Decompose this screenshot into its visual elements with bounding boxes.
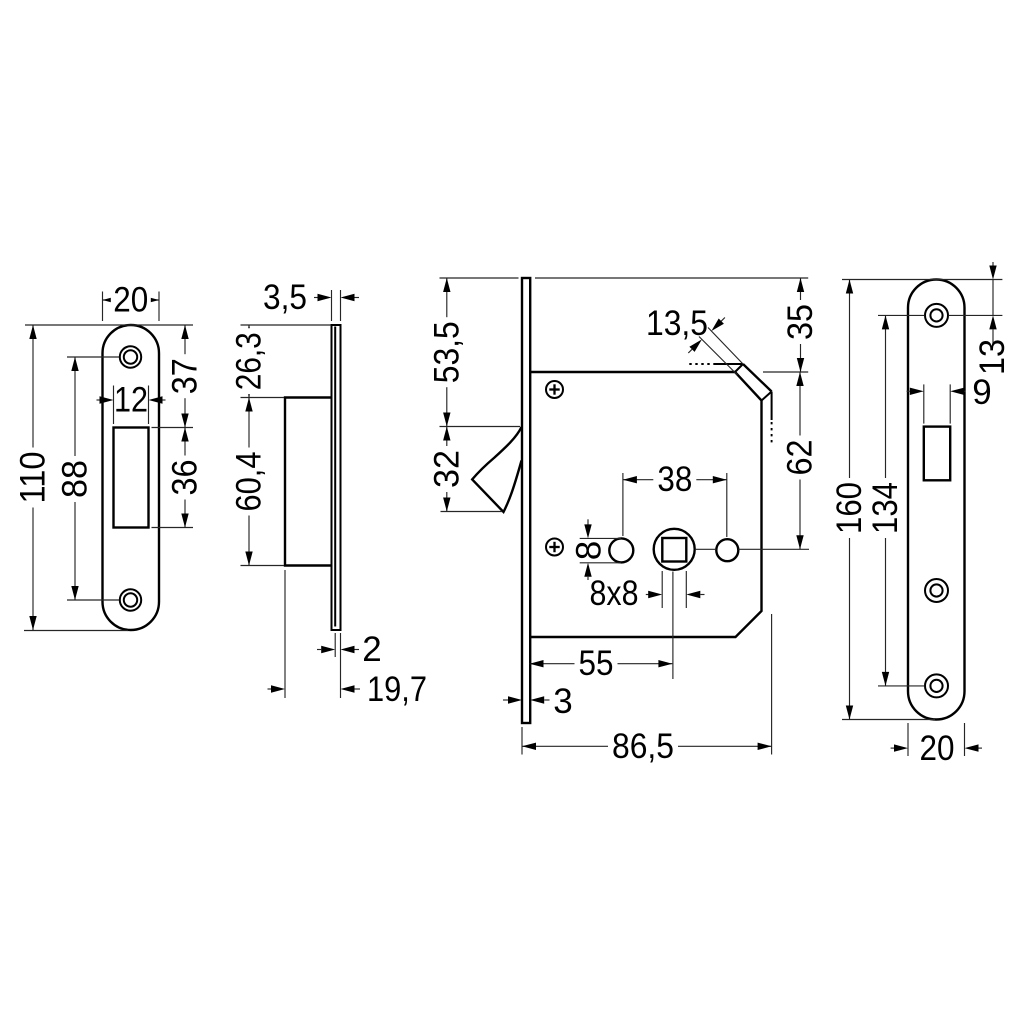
svg-text:13,5: 13,5 <box>646 304 708 343</box>
dimension 8 hole diameter <box>570 519 609 580</box>
extension line faceplate top y278 <box>440 277 809 279</box>
lock faceplate side strip <box>522 278 530 723</box>
svg-text:8: 8 <box>570 541 609 560</box>
extension lines dim 8x8 <box>662 571 686 608</box>
dimension 55 backset <box>530 644 673 683</box>
strike plate side view outline <box>332 325 341 630</box>
extension lines dim 20 <box>103 292 160 322</box>
extension lines dim 12 <box>114 386 149 425</box>
svg-text:38: 38 <box>657 460 692 499</box>
svg-text:36: 36 <box>166 460 205 496</box>
extension line plate top y325 <box>25 324 193 326</box>
svg-text:110: 110 <box>14 452 53 504</box>
svg-text:9: 9 <box>972 373 991 412</box>
dimension 3 faceplate thickness <box>503 682 573 721</box>
extension line box bottom y565.5 <box>241 565 285 567</box>
extension line faceplate bottom left <box>521 727 523 755</box>
svg-text:86,5: 86,5 <box>612 727 674 766</box>
dimension 86,5 total depth <box>522 727 772 766</box>
svg-text:53,5: 53,5 <box>427 321 466 383</box>
dimension 160 faceplate height <box>830 280 869 720</box>
latch bolt bevel bottom closing edge <box>762 392 772 401</box>
strike plate latch cutout <box>114 428 149 528</box>
strike plate side inner line <box>334 327 336 627</box>
dimension 20 plate width <box>103 281 160 320</box>
dimension 53,5 <box>427 278 466 427</box>
extension line faceplate bottom y719.5 <box>842 719 935 721</box>
svg-text:134: 134 <box>866 482 905 534</box>
extension line bottom hole center <box>878 685 925 687</box>
extension line body right for 86,5 <box>771 614 773 755</box>
spindle hub circle <box>654 529 695 570</box>
svg-text:88: 88 <box>56 460 95 498</box>
extension line cutout top right <box>152 427 194 429</box>
lock pocket box side view <box>285 398 332 566</box>
hook bolt protruding <box>472 427 521 512</box>
extension lines dim 2 <box>335 633 340 698</box>
dimension 35 <box>781 278 820 372</box>
extension line spindle center vertical <box>672 572 674 680</box>
faceplate front view outline <box>908 280 965 720</box>
strike plate screw hole top <box>120 346 141 367</box>
latch top line dotted part <box>689 363 714 365</box>
extension line plate bottom y630 <box>24 630 128 632</box>
faceplate screw hole bottom <box>925 674 948 697</box>
dimension 62 <box>781 372 820 549</box>
dimension 60,4 box height <box>230 398 269 566</box>
latch bolt tip vertical hidden dotted <box>771 422 773 446</box>
extension lines dim 3,5 <box>332 290 341 321</box>
svg-text:37: 37 <box>166 358 205 394</box>
dimension 13,5 arrows <box>688 318 725 354</box>
faceplate screw hole top <box>925 304 948 327</box>
extension line faceplate top y279.5 <box>842 279 1002 281</box>
dimension 19,7 box depth <box>268 670 428 709</box>
extension line body top right y372 <box>763 371 808 373</box>
svg-text:62: 62 <box>781 440 820 476</box>
dimension 88 hole spacing <box>56 357 95 600</box>
svg-text:60,4: 60,4 <box>230 452 269 512</box>
extension lines dim 9 <box>924 384 950 423</box>
extension line hook top y426.5 <box>440 426 521 428</box>
dimension 2 plate thickness <box>317 630 382 669</box>
extension line cutout bottom right <box>152 527 194 529</box>
svg-text:13: 13 <box>973 339 1012 375</box>
extension line spindle centerline right <box>696 548 809 550</box>
case screw top <box>546 381 563 398</box>
extension line box top y397.5 <box>241 397 285 399</box>
svg-text:12: 12 <box>114 381 148 420</box>
svg-text:20: 20 <box>113 281 148 320</box>
dimension 38 hole spacing <box>623 460 727 499</box>
extension lines dim 8 <box>580 538 621 562</box>
svg-text:55: 55 <box>579 644 614 683</box>
dimension 36 cutout height <box>166 428 205 528</box>
latch bolt bevel top corner step <box>735 364 743 372</box>
latch bolt tip vertical solid <box>771 392 773 421</box>
latch bolt bevel outer edge <box>743 364 772 392</box>
extension line bottom hole center <box>67 599 119 601</box>
extension lines dim 38 <box>623 473 727 537</box>
extension line side plate top y325 <box>241 324 332 326</box>
dimension 110 plate height <box>14 325 53 630</box>
dimension 13,5 leader lines <box>699 328 743 376</box>
case screw bottom <box>546 539 563 556</box>
dimension 3,5 total thickness <box>263 278 359 317</box>
svg-text:160: 160 <box>830 482 869 534</box>
dimension 20 faceplate width <box>891 729 982 768</box>
dimension 9 cutout width <box>907 373 992 412</box>
faceplate screw hole middle <box>925 579 948 602</box>
svg-text:8x8: 8x8 <box>590 574 639 613</box>
dimension 37 top to cutout <box>166 325 205 428</box>
faceplate latch cutout <box>924 427 950 481</box>
dimension 134 hole spacing <box>866 315 905 686</box>
dimension 8x8 spindle <box>590 574 705 613</box>
svg-text:3,5: 3,5 <box>263 278 307 317</box>
extension line hook bottom y511.5 <box>441 511 503 513</box>
svg-text:32: 32 <box>427 450 466 488</box>
spindle square 8x8 <box>662 538 686 562</box>
extension lines dim 20 bottom <box>908 723 965 756</box>
dimension 13 top to hole <box>973 262 1012 375</box>
svg-text:2: 2 <box>362 630 381 669</box>
left fixing hole <box>609 538 633 562</box>
strike plate front view outline <box>103 325 160 630</box>
lock body outline <box>530 372 761 637</box>
latch top line solid part <box>714 363 743 365</box>
extension line top hole center <box>67 356 119 358</box>
svg-text:19,7: 19,7 <box>367 670 427 709</box>
extension line top hole center <box>878 314 1002 316</box>
svg-text:26,3: 26,3 <box>230 332 269 390</box>
dimension 32 <box>427 427 466 512</box>
svg-text:20: 20 <box>920 729 955 768</box>
extension line box left bottom <box>284 570 286 698</box>
svg-text:35: 35 <box>781 304 820 340</box>
right fixing hole <box>716 539 738 561</box>
dimension 12 cutout width <box>97 381 166 420</box>
svg-text:3: 3 <box>553 682 572 721</box>
dimension 26,3 <box>230 325 269 398</box>
strike plate screw hole bottom <box>120 589 141 610</box>
